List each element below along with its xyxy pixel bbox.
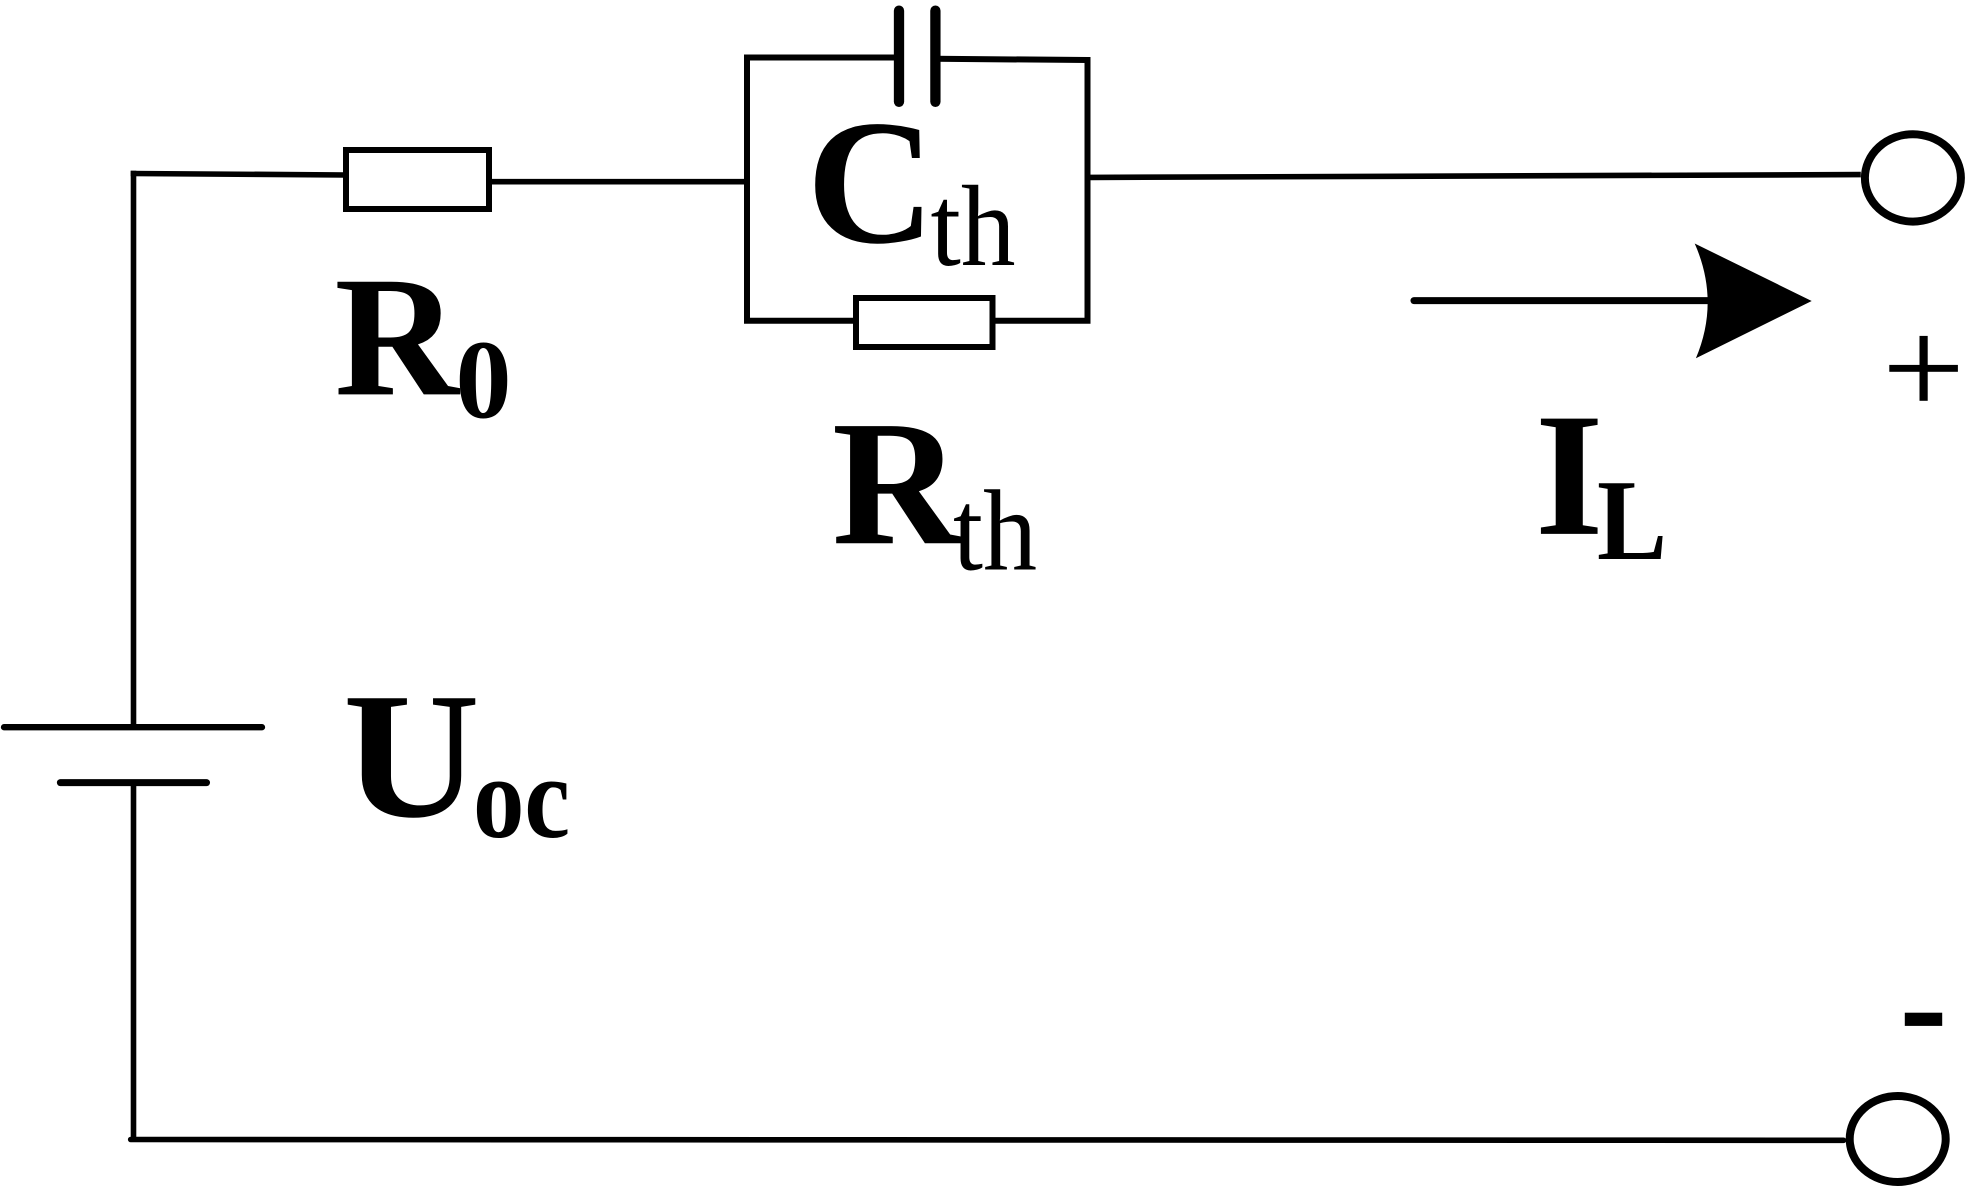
resistor R0	[346, 150, 489, 209]
capacitor Cth right plate	[930, 11, 940, 102]
RC block frame: right edge	[1085, 57, 1091, 324]
svg-text:I: I	[1535, 378, 1604, 573]
wire R0 to RC block	[489, 179, 750, 185]
svg-text:U: U	[343, 656, 480, 855]
battery Uoc long plate	[4, 724, 262, 730]
node top terminal	[1865, 134, 1961, 221]
current arrow IL head	[1695, 244, 1812, 359]
svg-text:th: th	[953, 468, 1037, 595]
RC parallel block frame: left edge	[744, 55, 750, 324]
wire bottom rail	[131, 1137, 1844, 1143]
plus terminal mark	[1889, 365, 1958, 372]
svg-text:0: 0	[456, 319, 512, 443]
current arrow IL shaft	[1414, 297, 1718, 304]
wire left vertical (top section)	[131, 171, 137, 727]
svg-text:th: th	[931, 163, 1016, 290]
battery Uoc short plate	[60, 779, 206, 786]
RC block frame: bottom-left segment to Rth	[744, 318, 859, 324]
svg-text:L: L	[1597, 457, 1667, 584]
RC block frame: bottom-right segment from Rth	[989, 318, 1091, 324]
capacitor Cth left plate	[894, 11, 904, 102]
svg-text:R: R	[832, 383, 963, 582]
RC block frame: top-right segment from capacitor	[935, 59, 1088, 60]
RC block frame: top-left segment to capacitor	[744, 55, 899, 61]
wire top-left rail to R0	[131, 174, 346, 176]
resistor Rth	[856, 298, 993, 347]
minus terminal mark	[1905, 1013, 1942, 1026]
node bottom terminal	[1850, 1096, 1946, 1182]
wire left vertical (bottom section)	[131, 783, 137, 1140]
wire RC block to top terminal	[1091, 175, 1861, 178]
svg-text:C: C	[807, 83, 936, 281]
svg-text:oc: oc	[473, 732, 570, 863]
svg-text:R: R	[335, 242, 461, 432]
